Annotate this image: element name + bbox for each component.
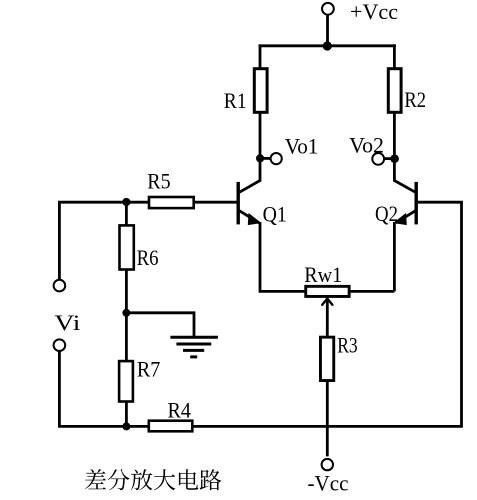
svg-text:R5: R5 — [147, 169, 170, 194]
svg-text:R4: R4 — [168, 397, 192, 422]
svg-text:R1: R1 — [224, 88, 247, 113]
svg-text:Rw1: Rw1 — [304, 262, 342, 287]
svg-text:+Vcc: +Vcc — [350, 0, 398, 24]
svg-text:Vo2: Vo2 — [349, 132, 384, 157]
svg-text:Vi: Vi — [54, 310, 80, 335]
svg-text:R2: R2 — [404, 87, 426, 112]
svg-text:Q1: Q1 — [263, 201, 287, 226]
svg-text:R6: R6 — [137, 245, 159, 270]
svg-text:Vo1: Vo1 — [285, 134, 319, 159]
svg-text:R3: R3 — [337, 333, 358, 358]
svg-text:-Vcc: -Vcc — [308, 471, 349, 496]
svg-text:R7: R7 — [137, 356, 160, 381]
svg-text:Q2: Q2 — [375, 201, 398, 226]
